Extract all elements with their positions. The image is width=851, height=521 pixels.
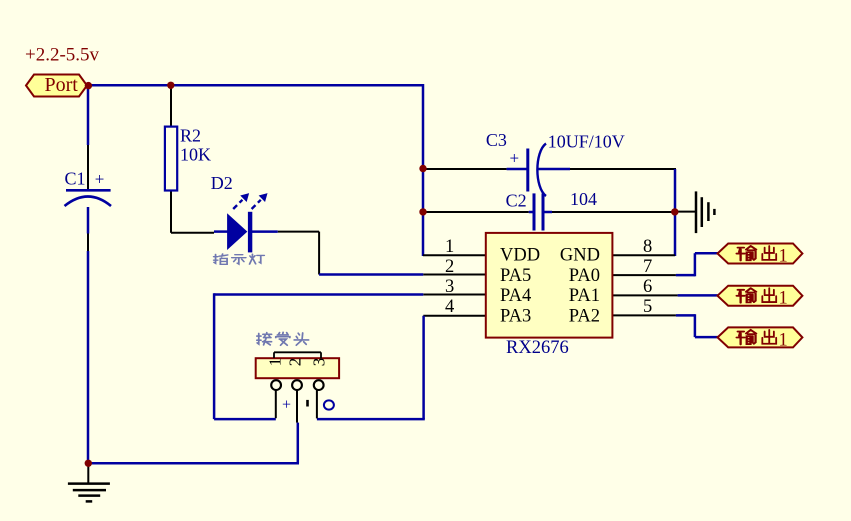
svg-text:+: + — [282, 397, 291, 414]
svg-text:PA2: PA2 — [569, 307, 600, 327]
svg-text:C1: C1 — [65, 169, 86, 189]
svg-text:1: 1 — [779, 330, 788, 350]
svg-text:1: 1 — [265, 358, 284, 367]
svg-text:PA1: PA1 — [569, 286, 600, 306]
svg-text:2: 2 — [445, 257, 454, 277]
svg-text:+: + — [95, 170, 105, 189]
svg-text:PA3: PA3 — [500, 307, 531, 327]
svg-text:5: 5 — [643, 297, 652, 317]
svg-text:PA0: PA0 — [569, 266, 600, 286]
svg-text:GND: GND — [560, 246, 600, 266]
svg-text:VDD: VDD — [500, 246, 540, 266]
svg-text:+2.2-5.5v: +2.2-5.5v — [25, 45, 100, 66]
svg-text:RX2676: RX2676 — [506, 338, 569, 358]
svg-text:PA5: PA5 — [500, 266, 531, 286]
svg-text:C2: C2 — [506, 191, 527, 211]
svg-text:R2: R2 — [180, 126, 201, 146]
svg-text:8: 8 — [643, 237, 652, 257]
svg-text:10UF/10V: 10UF/10V — [548, 132, 625, 152]
svg-text:104: 104 — [570, 189, 597, 209]
svg-text:7: 7 — [643, 257, 652, 277]
svg-text:10K: 10K — [180, 145, 211, 165]
svg-text:PA4: PA4 — [500, 286, 531, 306]
svg-text:Port: Port — [45, 74, 79, 96]
svg-text:1: 1 — [779, 247, 788, 267]
svg-text:D2: D2 — [211, 173, 233, 193]
svg-text:+: + — [510, 149, 520, 168]
svg-text:3: 3 — [445, 277, 454, 297]
svg-text:6: 6 — [643, 277, 652, 297]
svg-text:3: 3 — [309, 358, 328, 367]
svg-text:4: 4 — [445, 297, 454, 317]
svg-text:2: 2 — [285, 358, 304, 367]
svg-text:1: 1 — [779, 289, 788, 309]
svg-text:1: 1 — [445, 237, 454, 257]
svg-text:C3: C3 — [486, 130, 507, 150]
